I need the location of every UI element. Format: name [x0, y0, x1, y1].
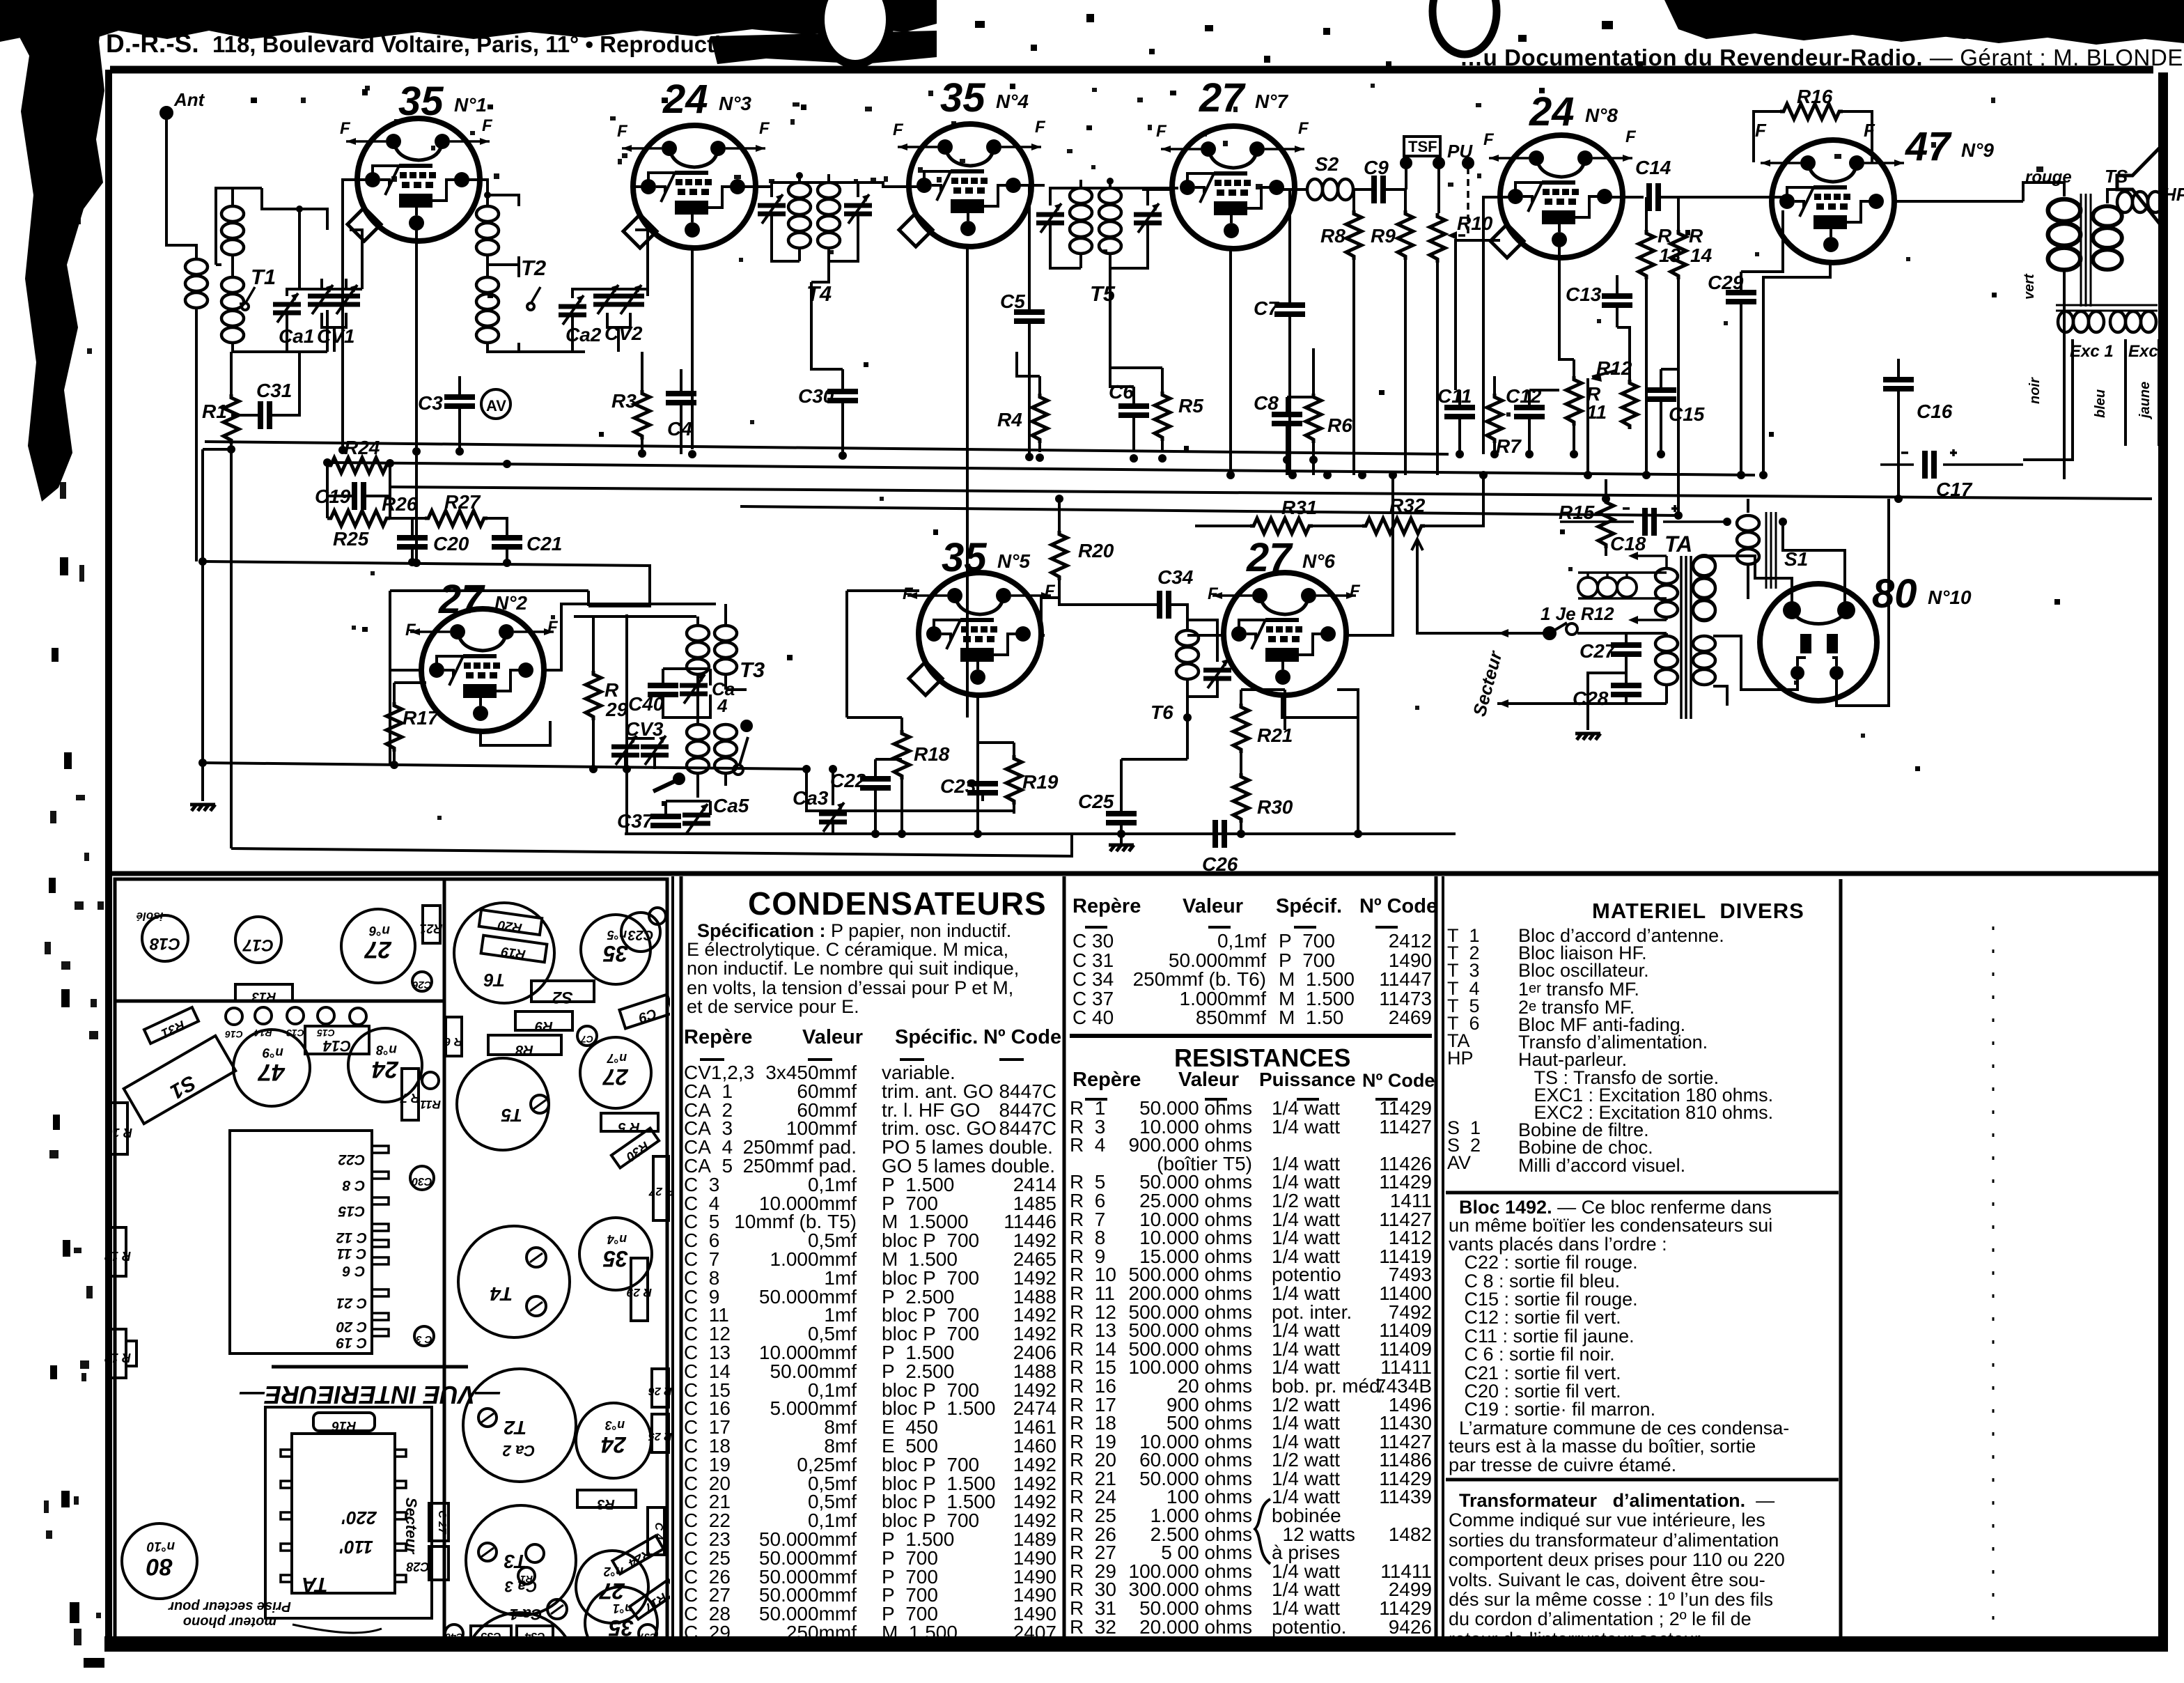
resistor R26 ext — [390, 517, 425, 520]
svg-text:TA: TA — [302, 1573, 328, 1596]
tube 24 n3 (chassis) — [576, 1403, 651, 1478]
svg-text:C40: C40 — [628, 693, 664, 715]
svg-text:jaune: jaune — [2137, 382, 2153, 420]
T5 (chassis) — [457, 1058, 549, 1150]
resistor R25 — [327, 511, 390, 526]
svg-text:F: F — [1035, 118, 1046, 137]
svg-text:Secteur: Secteur — [1469, 648, 1506, 719]
rule col2/col3 double — [1435, 876, 1438, 1641]
rectifier output — [1836, 499, 1889, 706]
capacitor C23 — [967, 784, 998, 793]
svg-text:C37: C37 — [638, 1631, 657, 1643]
capacitor C31 — [260, 401, 270, 429]
rule col1/col2 — [1063, 876, 1066, 1641]
trimmer Ca2 — [559, 295, 586, 325]
capacitor C19 — [354, 482, 364, 510]
svg-text:R 29: R 29 — [627, 1286, 652, 1299]
svg-text:C15: C15 — [1669, 403, 1705, 425]
svg-text:R6: R6 — [1327, 414, 1352, 436]
frame bottom — [104, 1636, 2168, 1652]
svg-text:47: 47 — [257, 1059, 286, 1085]
svg-text:C5: C5 — [1000, 290, 1025, 312]
svg-text:C6: C6 — [1109, 381, 1134, 403]
trimmer Ca5 — [682, 804, 710, 833]
svg-text:S1: S1 — [166, 1071, 200, 1103]
tube 35 n4 (chassis) — [579, 1218, 652, 1290]
TA outer box (chassis) — [265, 1407, 432, 1618]
svg-text:T3: T3 — [740, 658, 765, 682]
curved note arrow — [292, 1624, 382, 1633]
tube 35 n1 (chassis) — [585, 1587, 657, 1659]
trimmer T5 left — [1036, 203, 1064, 233]
tube 27 N6 — [1212, 573, 1356, 695]
svg-text:Ca4: Ca4 — [712, 678, 735, 716]
resistor R5 — [1155, 391, 1170, 441]
svg-text:N°1: N°1 — [454, 94, 487, 116]
svg-text:n°10: n°10 — [146, 1539, 175, 1553]
frame right — [2158, 72, 2168, 1647]
resistor R4 — [1032, 394, 1047, 443]
svg-text:C 20: C 20 — [336, 1319, 368, 1335]
box around 27 N2 — [390, 591, 588, 764]
R11 (chassis) — [422, 1072, 439, 1089]
svg-text:R26: R26 — [382, 493, 418, 515]
resistor R31 — [1250, 518, 1313, 534]
svg-text:T4: T4 — [806, 281, 832, 306]
wire T1 top to grid row — [262, 188, 327, 289]
svg-text:F: F — [1350, 582, 1361, 600]
svg-text:N°7: N°7 — [1255, 91, 1288, 112]
svg-text:C9: C9 — [1364, 157, 1389, 178]
chassis labels (rotated 180) — [104, 910, 674, 1654]
tubes — [346, 118, 1904, 731]
wire tube8 cathode — [1559, 242, 1574, 359]
svg-text:n°3: n°3 — [605, 1418, 625, 1432]
R26 (chassis) — [652, 1369, 669, 1407]
top black band left — [0, 0, 937, 42]
resistor R3 — [634, 390, 650, 440]
capacitor C27 — [1611, 645, 1641, 654]
wire tube8 left pin — [1483, 197, 1515, 454]
svg-text:C28: C28 — [1573, 688, 1609, 709]
svg-text:C18: C18 — [149, 934, 180, 953]
R7 (chassis) — [402, 1069, 419, 1120]
svg-text:C26: C26 — [412, 979, 432, 991]
svg-text:27: 27 — [598, 1579, 625, 1604]
left margin blob — [0, 0, 104, 502]
C23 (chassis) — [621, 913, 660, 952]
schematic labels — [173, 75, 2184, 875]
svg-text:C18: C18 — [1610, 533, 1646, 554]
svg-text:C16: C16 — [225, 1029, 243, 1040]
tube 27 n7 (chassis) — [580, 1037, 651, 1108]
svg-text:CV3: CV3 — [625, 718, 664, 740]
trimmer T4 left — [758, 194, 786, 224]
tube 24 N8 — [1489, 135, 1632, 258]
resistor R14 — [1671, 230, 1686, 279]
svg-text:R10: R10 — [1457, 212, 1493, 234]
C3 (chassis) — [414, 1326, 434, 1346]
T3 coil C — [687, 724, 709, 773]
svg-text:R 6: R 6 — [444, 1035, 462, 1048]
capacitor C11 — [1444, 408, 1475, 417]
svg-text:R 10: R 10 — [106, 1126, 132, 1140]
capacitor C18 (chassis) — [142, 915, 188, 961]
VUE INTERIEURE overline — [272, 1365, 468, 1369]
resistor R9 — [1398, 210, 1413, 260]
svg-text:Ca3: Ca3 — [793, 787, 829, 809]
R12 b (chassis) — [110, 1329, 126, 1378]
svg-text:R25: R25 — [333, 528, 369, 550]
left low rail — [203, 763, 898, 811]
svg-text:R8: R8 — [515, 1042, 533, 1057]
svg-text:C13: C13 — [1566, 284, 1602, 305]
svg-text:CV1: CV1 — [317, 325, 354, 347]
wire bleu exc — [2124, 339, 2127, 446]
svg-text:Prise secteur pour: Prise secteur pour — [168, 1599, 291, 1614]
svg-text:C 27: C 27 — [436, 1510, 448, 1535]
wire tube9 cathode — [1763, 260, 1830, 475]
col3 rule under bloc 1492 — [1446, 1478, 1839, 1482]
tube 27 N7 — [1161, 126, 1304, 249]
wire tube1 cathode down — [415, 224, 418, 561]
TA core — [1681, 556, 1691, 719]
small caps row — [226, 1008, 242, 1025]
svg-text:R21: R21 — [1257, 724, 1293, 746]
svg-text:R17: R17 — [641, 1590, 670, 1616]
T4 screws — [526, 1248, 546, 1267]
svg-text:C7: C7 — [580, 1034, 593, 1045]
wire PU pickup — [1457, 167, 1468, 235]
bus rail D — [740, 506, 1678, 515]
wire tube4 right pin — [1015, 185, 1045, 312]
CV2 box wires — [572, 230, 648, 352]
T2 (chassis) — [463, 1369, 576, 1482]
svg-text:F: F — [547, 618, 559, 637]
T6 (chassis) — [454, 903, 554, 1003]
svg-text:F: F — [482, 116, 493, 135]
svg-text:220': 220' — [341, 1507, 377, 1528]
svg-text:CV2: CV2 — [604, 323, 643, 344]
svg-text:noir: noir — [2027, 377, 2043, 404]
svg-text:T1: T1 — [251, 265, 276, 289]
capacitor C5 — [1014, 312, 1045, 321]
panel top rule — [111, 871, 2162, 876]
trimmer T4 right — [844, 194, 872, 224]
tube 24 N3 — [622, 125, 765, 248]
svg-text:Ca5: Ca5 — [713, 795, 749, 816]
coil S1 — [1737, 515, 1759, 564]
C26 (chassis) — [412, 972, 432, 991]
svg-text:C26: C26 — [1202, 853, 1238, 875]
svg-text:n°8: n°8 — [376, 1042, 397, 1057]
exc core hatch — [2056, 305, 2158, 311]
svg-text:R30: R30 — [623, 1138, 652, 1164]
F arrows TA — [1638, 556, 1667, 620]
resistor R19 — [1006, 755, 1022, 805]
svg-text:T4: T4 — [490, 1283, 513, 1305]
resistor R15 — [1598, 499, 1614, 548]
capacitor C15 — [1646, 390, 1676, 399]
TA primary winding bottom left — [1655, 636, 1678, 685]
svg-text:Exc 1: Exc 1 — [2070, 342, 2114, 361]
resistor R6 — [1306, 394, 1321, 443]
svg-text:AV: AV — [486, 397, 506, 414]
transformer T1 secondary — [221, 277, 244, 343]
T6 trimmer — [1203, 659, 1231, 688]
wire tube3 pins — [632, 187, 766, 449]
svg-text:27: 27 — [602, 1064, 629, 1089]
R1 (chassis) — [518, 1567, 535, 1584]
svg-text:bleu: bleu — [2093, 389, 2108, 418]
left ground drop — [201, 449, 204, 801]
R29 (chassis) — [631, 1258, 648, 1321]
R31 (chassis) — [144, 1007, 198, 1044]
svg-text:C30: C30 — [798, 385, 834, 407]
svg-text:R4: R4 — [997, 409, 1022, 431]
transformer T5 winding 2 — [1099, 188, 1121, 254]
scan hole ring 1 — [820, 0, 890, 64]
svg-text:C37: C37 — [617, 810, 654, 832]
svg-text:F: F — [617, 122, 628, 141]
svg-text:C19: C19 — [315, 486, 351, 507]
svg-text:C40: C40 — [445, 1631, 463, 1643]
svg-text:moteur phono: moteur phono — [183, 1614, 276, 1629]
capacitor C7 — [1274, 305, 1305, 314]
svg-text:n°1: n°1 — [613, 1601, 632, 1615]
svg-text:R15: R15 — [1559, 502, 1595, 523]
capacitor C14 — [1649, 183, 1658, 211]
svg-text:Ant: Ant — [173, 89, 205, 110]
svg-text:F: F — [405, 621, 416, 639]
resistor R29 — [586, 671, 601, 720]
R30 (chassis) — [611, 1128, 659, 1168]
svg-text:R21: R21 — [419, 922, 442, 936]
wire jaune exc — [2158, 339, 2160, 446]
svg-text:n°5: n°5 — [607, 928, 627, 942]
svg-text:T6: T6 — [1150, 701, 1173, 723]
T3 screw — [478, 1543, 497, 1561]
transformer T2 primary — [476, 206, 499, 255]
TA HT winding top right — [1693, 556, 1715, 620]
svg-text:F: F — [340, 119, 351, 138]
tube 35 N5 — [907, 573, 1051, 695]
capacitor C9 — [1374, 176, 1383, 203]
potentiometer R12 — [1622, 380, 1637, 429]
transformer TS secondary — [2093, 206, 2122, 270]
svg-text:C4: C4 — [667, 418, 692, 440]
AV meter — [481, 389, 510, 419]
scan hole ring 2 — [1433, 0, 1497, 54]
resistor R21 — [1233, 704, 1249, 753]
svg-text:35: 35 — [602, 941, 628, 966]
svg-text:24: 24 — [1529, 89, 1575, 134]
R24 (chassis) — [612, 1535, 663, 1574]
wire tube7 cathode — [1229, 249, 1232, 475]
resistor R18 — [894, 730, 910, 780]
svg-text:R9: R9 — [1371, 225, 1396, 247]
tube 35 N4 — [898, 124, 1041, 247]
svg-text:C34: C34 — [1157, 566, 1194, 588]
svg-text:R3: R3 — [597, 1496, 615, 1512]
svg-text:Ca 2: Ca 2 — [502, 1442, 535, 1459]
svg-text:R14: R14 — [1689, 225, 1713, 266]
wire tube5 cathode — [976, 697, 979, 834]
svg-text:Exc2: Exc2 — [2128, 342, 2168, 361]
svg-text:F: F — [1045, 582, 1056, 600]
svg-text:HP: HP — [2163, 184, 2184, 205]
svg-text:C 21: C 21 — [336, 1295, 367, 1311]
header right — [1460, 45, 2184, 71]
svg-text:R18: R18 — [914, 743, 950, 765]
svg-text:C 6: C 6 — [342, 1263, 365, 1279]
svg-text:F: F — [1208, 584, 1219, 603]
top black band right — [1664, 0, 2184, 45]
ground rail — [625, 832, 1456, 835]
tube 35 n5 (chassis) — [581, 915, 650, 984]
svg-text:T2: T2 — [521, 256, 546, 280]
svg-text:C23: C23 — [940, 775, 976, 797]
capacitor C21 — [492, 538, 522, 547]
svg-text:R16: R16 — [331, 1418, 356, 1433]
svg-text:C11: C11 — [1437, 385, 1472, 407]
svg-text:R32: R32 — [1389, 495, 1426, 516]
svg-text:F: F — [1156, 122, 1167, 141]
frame top — [110, 66, 2153, 74]
svg-text:Ca1: Ca1 — [279, 325, 314, 347]
transformer T1 primary — [221, 206, 244, 255]
C9 (chassis) — [619, 995, 673, 1029]
R5 (chassis) — [601, 1113, 658, 1131]
R25 (chassis) — [652, 1414, 669, 1452]
resistor R24 — [327, 458, 390, 473]
ground TA — [1575, 734, 1600, 740]
svg-text:C 12: C 12 — [336, 1230, 368, 1246]
capacitor C29 — [1726, 293, 1756, 302]
capacitor C13 — [1602, 296, 1632, 305]
svg-text:C35: C35 — [480, 1630, 501, 1642]
C7 (chassis) — [577, 1026, 597, 1046]
T3 wires — [698, 604, 747, 798]
svg-text:C 3: C 3 — [416, 1333, 432, 1345]
T2 loop wires — [487, 195, 585, 352]
HT winding to tube 80 plates — [1704, 556, 1792, 603]
antenna — [161, 107, 196, 258]
grid-bias rail — [205, 561, 650, 606]
svg-text:27: 27 — [1199, 75, 1246, 121]
tube 27 n6 (chassis) — [341, 909, 415, 983]
svg-text:C12: C12 — [1506, 385, 1542, 407]
switch (band) — [653, 780, 677, 791]
C37-Ca5 box — [627, 769, 864, 834]
switch R12 secteur — [1544, 628, 1555, 639]
Ca1 screw (chassis) — [547, 1599, 567, 1619]
capacitor C12 — [1514, 408, 1545, 417]
svg-text:C23: C23 — [628, 927, 654, 943]
T4 (chassis) — [458, 1226, 570, 1337]
wire mid to right — [1357, 718, 1359, 834]
svg-text:C21: C21 — [526, 533, 562, 554]
svg-text:R 26: R 26 — [648, 1385, 672, 1397]
svg-text:F: F — [903, 584, 914, 603]
resistor R8 — [1346, 210, 1362, 260]
col3 rule under AV — [1446, 1191, 1839, 1195]
C28 (chassis) — [429, 1546, 448, 1580]
col2 brace for R25-27 — [1255, 1499, 1270, 1564]
dial lamps — [1578, 577, 1598, 597]
svg-text:C17: C17 — [1936, 479, 1973, 500]
svg-text:R7: R7 — [1496, 435, 1522, 457]
bloc pin stubs — [372, 1146, 389, 1336]
ground (left) — [190, 805, 215, 811]
svg-text:C16: C16 — [1917, 401, 1953, 422]
capacitor C17 (+/-) — [1925, 451, 1934, 479]
bus rail C — [390, 487, 2152, 499]
wire tube1 left pin — [343, 180, 370, 449]
svg-text:T5: T5 — [501, 1105, 522, 1126]
svg-text:C22: C22 — [338, 1151, 365, 1168]
transformer T2 secondary — [476, 277, 499, 343]
resistor R7 — [1487, 394, 1502, 443]
svg-text:C14: C14 — [1635, 157, 1671, 178]
svg-text:47: 47 — [1905, 124, 1952, 169]
svg-text:R 12: R 12 — [104, 1249, 131, 1263]
variable cap CV2 — [593, 285, 621, 314]
capacitor C34 — [1160, 591, 1169, 619]
variable cap CV1 — [308, 285, 336, 314]
svg-text:R12: R12 — [1596, 357, 1632, 379]
trimmer T5 right — [1134, 203, 1162, 233]
wire tube5 grid top — [847, 591, 919, 718]
rule chassis/col1 — [671, 876, 674, 1641]
R12 a (chassis) — [110, 1227, 126, 1276]
wire vert TS — [2063, 293, 2066, 479]
capacitor C22 — [860, 779, 891, 788]
long vertical to CV3 — [625, 614, 628, 786]
svg-text:R16: R16 — [1797, 86, 1833, 107]
capacitor C17 (chassis) — [235, 917, 281, 963]
svg-text:R8: R8 — [1320, 225, 1345, 247]
svg-text:N°6: N°6 — [1302, 550, 1335, 572]
C40 circle (chassis) — [445, 1624, 463, 1643]
capacitor C26 series — [1215, 820, 1224, 848]
wire tube4 cathode — [966, 247, 969, 718]
svg-text:C 8: C 8 — [342, 1177, 365, 1193]
svg-text:1 Je R12: 1 Je R12 — [1540, 603, 1614, 624]
svg-text:C 11: C 11 — [337, 1246, 367, 1262]
capacitor C6 — [1118, 406, 1149, 415]
resistor R11 — [1566, 376, 1582, 426]
potentiometer R10 — [1430, 213, 1445, 263]
svg-text:N°8: N°8 — [1585, 104, 1618, 126]
svg-text:T5: T5 — [1090, 281, 1116, 306]
resistor R30 — [1233, 773, 1249, 823]
svg-text:N°5: N°5 — [997, 550, 1030, 572]
tube 27 N2 — [410, 609, 554, 731]
svg-text:C29: C29 — [1708, 272, 1744, 293]
left bay top strip divider — [115, 1000, 444, 1003]
T2 screw — [478, 1409, 497, 1427]
col2 rule above RESISTANCES — [1070, 1034, 1432, 1038]
svg-text:n°4: n°4 — [607, 1232, 627, 1246]
svg-text:n°9: n°9 — [263, 1045, 283, 1060]
capacitor C3 — [444, 397, 475, 406]
svg-text:isolé: isolé — [136, 910, 164, 923]
svg-text:R13: R13 — [251, 989, 276, 1004]
bay divider vertical — [443, 879, 446, 1638]
capacitor C4 — [666, 394, 696, 403]
svg-text:R11: R11 — [1586, 383, 1607, 423]
